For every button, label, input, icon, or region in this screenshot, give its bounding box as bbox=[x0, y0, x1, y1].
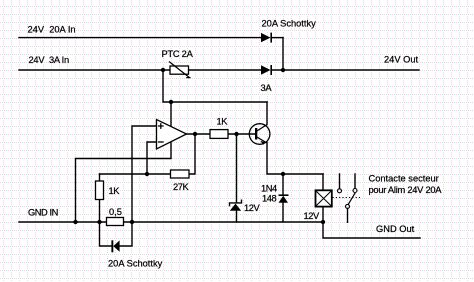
diode 1N4148 D3 bbox=[279, 195, 289, 203]
junction V+ tap bbox=[169, 100, 173, 104]
svg-text:24V 3A In: 24V 3A In bbox=[29, 55, 69, 65]
junction shunt right bbox=[130, 220, 134, 224]
wire schottky bypass loop bbox=[100, 222, 133, 246]
svg-text:27K: 27K bbox=[173, 182, 189, 192]
wire 27K to feedback vertical bbox=[189, 134, 195, 174]
wire base resistor to transistor bbox=[228, 133, 256, 135]
contact moving arm bbox=[348, 193, 355, 205]
contact circle right bbox=[353, 189, 357, 193]
wire op-amp -input bbox=[147, 142, 157, 174]
svg-text:pour Alim 24V 20A: pour Alim 24V 20A bbox=[369, 185, 443, 195]
wire 1K bottom lead bbox=[99, 200, 101, 223]
wire 1N4148 to ground bbox=[282, 203, 284, 222]
wire GND jog down to GND Out bbox=[323, 222, 420, 238]
wire op-amp V- pin to ground bbox=[76, 142, 172, 223]
diode 3A D2 bbox=[261, 65, 272, 75]
op-amp U1 bbox=[157, 120, 187, 150]
wire 24V 20A In rail bbox=[19, 37, 261, 39]
junction base zener bbox=[234, 132, 238, 136]
resistor 0,5 shunt R3 bbox=[107, 218, 124, 226]
svg-text:GND Out: GND Out bbox=[376, 224, 415, 234]
svg-text:1K: 1K bbox=[217, 117, 229, 127]
wire GND IN rail left bbox=[19, 221, 107, 223]
wire GND rail right of shunt bbox=[124, 221, 324, 223]
wire 1N4148 branch bbox=[282, 174, 284, 195]
svg-text:24V Out: 24V Out bbox=[384, 55, 419, 65]
junction relay ground bbox=[321, 220, 325, 224]
wire 3A diode to 24V Out bbox=[272, 69, 419, 71]
diode 20A Schottky bottom D4 bbox=[111, 240, 119, 252]
junction PTC tap bbox=[161, 68, 165, 72]
wire collector bbox=[266, 102, 268, 125]
wire feedback node horizontal bbox=[100, 173, 171, 175]
wire relay coil top lead bbox=[322, 174, 324, 190]
junction diode join bbox=[281, 68, 285, 72]
wire zener branch bbox=[236, 134, 238, 202]
svg-text:1K: 1K bbox=[109, 186, 121, 196]
relay coil 12V K1 bbox=[316, 190, 332, 206]
junction emitter node bbox=[281, 172, 285, 176]
wire zener to ground bbox=[236, 211, 238, 222]
junction op-amp output bbox=[193, 132, 197, 136]
contact circle left bbox=[338, 189, 342, 193]
svg-text:20A Schottky: 20A Schottky bbox=[108, 259, 163, 269]
svg-text:20A Schottky: 20A Schottky bbox=[262, 19, 317, 29]
resistor 27K feedback bbox=[171, 170, 190, 178]
wire op-amp output bbox=[187, 133, 211, 135]
transistor Q1 bbox=[249, 124, 270, 145]
wire join vertical bbox=[282, 38, 284, 70]
wire PTC to diode 3A bbox=[189, 69, 262, 71]
wire PTC tap down and across bbox=[163, 70, 267, 102]
svg-text:GND IN: GND IN bbox=[28, 208, 58, 218]
wire 1K top lead bbox=[99, 174, 101, 181]
svg-text:0,5: 0,5 bbox=[109, 207, 122, 217]
svg-text:12V: 12V bbox=[244, 203, 260, 213]
resistor 1K base R1 bbox=[210, 130, 228, 139]
fuse PTC 2A bbox=[169, 62, 191, 78]
junction -input feedback bbox=[145, 172, 149, 176]
svg-text:Contacte secteur: Contacte secteur bbox=[369, 173, 439, 183]
wire relay coil bottom lead bbox=[322, 207, 324, 222]
resistor 1K vertical R2 bbox=[96, 181, 104, 200]
wire 24V 3A In rail left bbox=[19, 69, 170, 71]
svg-text:PTC 2A: PTC 2A bbox=[162, 49, 194, 59]
contact common circle bbox=[346, 204, 350, 208]
junction V- ground bbox=[73, 220, 77, 224]
wire op-amp V+ pin bbox=[170, 102, 172, 127]
wire contact common lead bbox=[347, 209, 349, 223]
wire diode D1 cathode to join bbox=[272, 37, 283, 39]
wire emitter down and right bbox=[267, 143, 323, 175]
svg-text:1N4: 1N4 bbox=[261, 184, 277, 194]
junction shunt left bbox=[97, 220, 101, 224]
diode 20A Schottky top D1 bbox=[261, 33, 272, 43]
svg-text:3A: 3A bbox=[261, 83, 273, 93]
wire contact lead left bbox=[339, 174, 341, 189]
svg-text:148: 148 bbox=[262, 194, 276, 204]
svg-text:12V: 12V bbox=[304, 211, 320, 221]
wire op-amp +input to ground rail bbox=[132, 126, 157, 222]
relay actuation dotted link bbox=[333, 197, 361, 199]
zener diode 12V Z1 bbox=[230, 200, 242, 211]
wire contact lead right bbox=[354, 174, 356, 188]
svg-text:24V 20A In: 24V 20A In bbox=[28, 25, 76, 35]
